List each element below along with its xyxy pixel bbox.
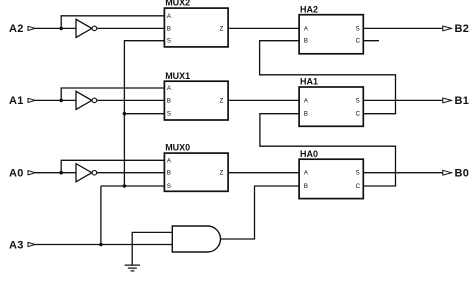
svg-text:B1: B1: [455, 95, 470, 107]
svg-text:MUX2: MUX2: [165, 0, 190, 8]
svg-text:S: S: [356, 98, 360, 104]
svg-text:HA2: HA2: [300, 4, 318, 14]
svg-text:MUX1: MUX1: [165, 71, 190, 81]
svg-text:B: B: [304, 39, 308, 45]
svg-text:A: A: [167, 14, 171, 20]
svg-text:S: S: [356, 171, 360, 177]
svg-text:A1: A1: [9, 95, 24, 107]
svg-text:Z: Z: [220, 98, 224, 104]
svg-text:B: B: [167, 26, 171, 32]
svg-text:A: A: [167, 86, 171, 92]
svg-text:B: B: [304, 184, 308, 190]
svg-text:C: C: [356, 184, 361, 190]
svg-text:HA1: HA1: [300, 77, 318, 87]
svg-text:B: B: [167, 98, 171, 104]
svg-text:HA0: HA0: [300, 149, 318, 159]
svg-text:A2: A2: [9, 23, 24, 35]
svg-text:B2: B2: [455, 23, 470, 35]
svg-text:A3: A3: [9, 239, 24, 251]
svg-text:B0: B0: [455, 168, 470, 180]
svg-text:A: A: [304, 26, 308, 32]
svg-text:A0: A0: [9, 168, 24, 180]
svg-text:B: B: [304, 112, 308, 118]
svg-text:MUX0: MUX0: [165, 143, 190, 153]
svg-text:C: C: [356, 112, 361, 118]
svg-text:A: A: [167, 158, 171, 164]
svg-text:A: A: [304, 171, 308, 177]
svg-text:A: A: [304, 98, 308, 104]
svg-text:S: S: [167, 184, 171, 190]
svg-text:C: C: [356, 39, 361, 45]
svg-text:Z: Z: [220, 26, 224, 32]
svg-text:S: S: [356, 26, 360, 32]
svg-text:Z: Z: [220, 171, 224, 177]
svg-text:S: S: [167, 39, 171, 45]
svg-text:S: S: [167, 112, 171, 118]
svg-text:B: B: [167, 171, 171, 177]
